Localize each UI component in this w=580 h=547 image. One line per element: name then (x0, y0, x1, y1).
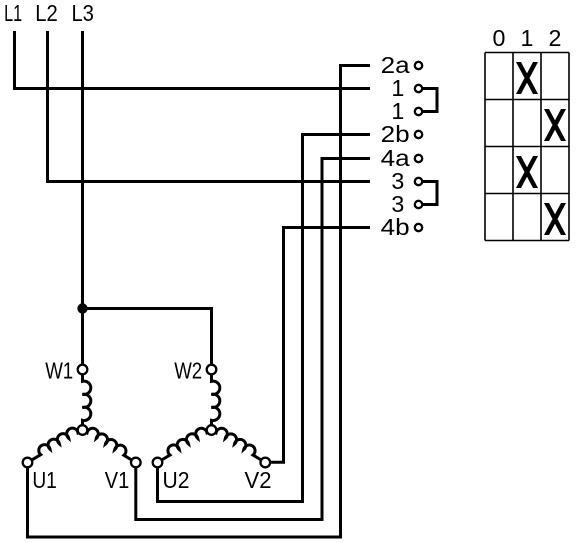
svg-text:V1: V1 (105, 467, 130, 493)
svg-text:W2: W2 (174, 357, 202, 383)
svg-text:4b: 4b (381, 214, 410, 240)
svg-text:L1: L1 (4, 0, 22, 26)
svg-text:0: 0 (493, 25, 506, 51)
svg-text:L3: L3 (71, 0, 94, 26)
svg-text:U2: U2 (163, 467, 190, 493)
svg-text:2: 2 (549, 25, 562, 51)
svg-text:1: 1 (521, 25, 534, 51)
svg-text:V2: V2 (245, 467, 272, 493)
svg-text:L2: L2 (35, 0, 58, 26)
svg-text:W1: W1 (45, 357, 73, 383)
svg-text:U1: U1 (32, 467, 57, 493)
svg-text:2b: 2b (381, 121, 410, 147)
